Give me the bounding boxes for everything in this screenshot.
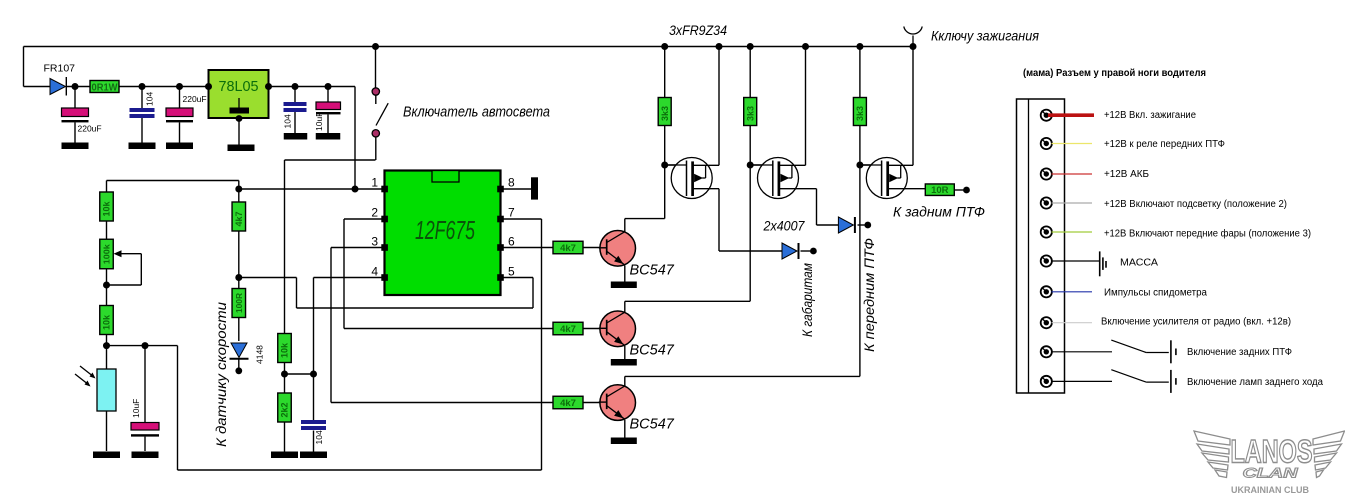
svg-text:100R: 100R bbox=[235, 293, 244, 313]
svg-text:МАССА: МАССА bbox=[1120, 258, 1158, 269]
svg-text:8: 8 bbox=[508, 176, 515, 190]
svg-text:5: 5 bbox=[508, 265, 515, 279]
svg-text:Кключу зажигания: Кключу зажигания bbox=[931, 28, 1039, 44]
svg-text:4k7: 4k7 bbox=[560, 398, 576, 409]
svg-text:+12В Вкл. зажигание: +12В Вкл. зажигание bbox=[1104, 110, 1196, 121]
svg-text:0R1W: 0R1W bbox=[92, 82, 118, 94]
svg-text:12F675: 12F675 bbox=[415, 215, 475, 245]
svg-text:4: 4 bbox=[371, 265, 378, 279]
svg-text:Включение усилителя от радио (: Включение усилителя от радио (вкл. +12в) bbox=[1101, 316, 1291, 327]
svg-text:104: 104 bbox=[283, 114, 293, 128]
svg-text:BC547: BC547 bbox=[630, 416, 675, 432]
svg-text:3k3: 3k3 bbox=[745, 106, 755, 121]
svg-text:2x4007: 2x4007 bbox=[763, 219, 805, 234]
svg-text:3k3: 3k3 bbox=[660, 106, 670, 121]
svg-text:10k: 10k bbox=[102, 200, 112, 216]
svg-text:4k7: 4k7 bbox=[234, 211, 244, 226]
svg-text:10R: 10R bbox=[931, 185, 949, 196]
svg-text:220uF: 220uF bbox=[183, 94, 207, 104]
svg-text:6: 6 bbox=[508, 235, 515, 249]
svg-text:BC547: BC547 bbox=[630, 343, 675, 359]
svg-text:4k7: 4k7 bbox=[560, 324, 576, 335]
svg-text:(мама) Разъем у правой ноги во: (мама) Разъем у правой ноги водителя bbox=[1023, 68, 1206, 79]
svg-text:BC547: BC547 bbox=[630, 262, 675, 278]
svg-text:Включение ламп заднего хода: Включение ламп заднего хода bbox=[1187, 377, 1323, 388]
svg-text:2k2: 2k2 bbox=[280, 402, 290, 417]
svg-text:UKRAINIAN CLUB: UKRAINIAN CLUB bbox=[1231, 485, 1309, 493]
svg-text:К передним ПТФ: К передним ПТФ bbox=[862, 238, 877, 352]
svg-text:К датчику скорости: К датчику скорости bbox=[214, 301, 229, 447]
svg-text:10uF: 10uF bbox=[314, 112, 324, 131]
svg-text:+12В к реле передних ПТФ: +12В к реле передних ПТФ bbox=[1104, 139, 1225, 150]
svg-text:Включатель автосвета: Включатель автосвета bbox=[403, 104, 550, 121]
svg-text:CLAN: CLAN bbox=[1243, 465, 1299, 481]
svg-text:+12В АКБ: +12В АКБ bbox=[1104, 169, 1149, 180]
svg-text:+12В Включают передние фары (п: +12В Включают передние фары (положение 3… bbox=[1104, 227, 1311, 239]
svg-text:4k7: 4k7 bbox=[560, 243, 576, 254]
svg-text:10k: 10k bbox=[280, 342, 290, 358]
svg-text:104: 104 bbox=[314, 430, 324, 444]
svg-text:10uF: 10uF bbox=[131, 399, 141, 418]
svg-text:FR107: FR107 bbox=[44, 63, 76, 75]
svg-text:+12В Включают подсветку (полож: +12В Включают подсветку (положение 2) bbox=[1104, 199, 1287, 210]
svg-text:104: 104 bbox=[145, 92, 155, 106]
svg-text:3: 3 bbox=[371, 235, 378, 249]
svg-text:7: 7 bbox=[508, 206, 515, 220]
svg-text:4148: 4148 bbox=[255, 345, 265, 364]
svg-text:К задним ПТФ: К задним ПТФ bbox=[893, 205, 985, 220]
svg-text:78L05: 78L05 bbox=[219, 79, 259, 95]
svg-text:3k3: 3k3 bbox=[855, 106, 865, 121]
svg-text:Включение задних ПТФ: Включение задних ПТФ bbox=[1187, 347, 1292, 358]
svg-text:100k: 100k bbox=[103, 244, 112, 265]
svg-text:220uF: 220uF bbox=[78, 124, 102, 134]
svg-text:10k: 10k bbox=[102, 314, 112, 330]
svg-text:2: 2 bbox=[371, 206, 378, 220]
svg-text:1: 1 bbox=[371, 176, 378, 190]
svg-text:3xFR9Z34: 3xFR9Z34 bbox=[669, 23, 727, 38]
svg-text:К габаритам: К габаритам bbox=[800, 263, 815, 337]
svg-text:Импульсы спидометра: Импульсы спидометра bbox=[1104, 287, 1207, 298]
